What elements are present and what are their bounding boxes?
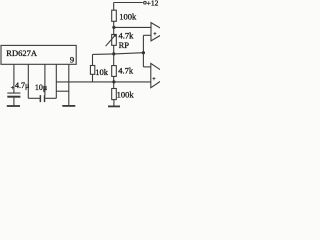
ground under C1 xyxy=(7,105,20,107)
svg-text:9: 9 xyxy=(70,55,74,65)
capacitor C2 10u right plate xyxy=(44,95,46,102)
resistor R4 100k bottom xyxy=(112,89,117,100)
capacitor C1 4.7u plate top xyxy=(7,93,20,94)
op-amp U2 top triangle xyxy=(151,23,167,41)
capacitor C2 10u left plate xyxy=(40,95,42,102)
IC U1 RD627A box xyxy=(1,45,76,64)
svg-text:RD627A: RD627A xyxy=(6,48,38,58)
svg-text:+12: +12 xyxy=(147,0,159,7)
node dot at junction xyxy=(142,51,145,54)
wire R3 to R4 xyxy=(113,76,115,88)
potentiometer RP 4.7k box xyxy=(112,35,117,46)
wire to opamp1 top input xyxy=(114,26,151,28)
wire pin1 down from IC xyxy=(13,64,15,92)
svg-text:10k: 10k xyxy=(95,67,109,77)
wire 10u right lead xyxy=(45,97,56,99)
svg-text:+: + xyxy=(152,77,156,83)
wire jog to ground stem xyxy=(56,90,69,92)
svg-text:100k: 100k xyxy=(117,89,135,99)
node dot below R2 xyxy=(112,26,115,29)
node dot mid column xyxy=(112,52,115,55)
wire to opamp2 top input xyxy=(143,66,150,68)
wire node to opamp junction xyxy=(114,53,144,54)
capacitor C1 4.7u plate bottom xyxy=(7,96,20,98)
resistor R2 100k top xyxy=(112,10,117,21)
svg-text:10μ: 10μ xyxy=(35,83,47,92)
wire pin5 ground stem xyxy=(68,64,70,105)
wire ground rail xyxy=(56,81,151,83)
wire RP to node xyxy=(113,45,115,65)
wire C1 to ground xyxy=(13,98,15,106)
wire 10k top to column xyxy=(93,53,114,56)
wire pin3 down from IC xyxy=(44,64,46,95)
wire top rail to R2 xyxy=(113,3,115,11)
svg-text:100k: 100k xyxy=(119,12,137,22)
wire pin4 down from IC xyxy=(55,64,57,98)
wire pin2 down from IC xyxy=(27,64,29,98)
potentiometer RP arrow xyxy=(106,36,115,47)
power rail top xyxy=(114,2,143,4)
resistor R1 10k vertical xyxy=(92,54,94,65)
ground under pin5 xyxy=(62,105,75,107)
wire R4 to ground xyxy=(113,100,115,106)
wire opamp1 plus input xyxy=(143,34,151,36)
op-amp U3 bottom triangle xyxy=(151,63,169,87)
wire junction vertical xyxy=(142,35,144,67)
svg-text:4.7k: 4.7k xyxy=(119,31,135,41)
node dot on ground rail xyxy=(112,80,115,83)
ground under R4 xyxy=(108,106,120,108)
wire 10u left lead xyxy=(28,97,39,99)
wire R2 to RP xyxy=(113,21,115,34)
svg-text:4.7k: 4.7k xyxy=(118,65,134,75)
resistor R3 4.7k vertical xyxy=(112,66,117,77)
svg-text:4.7μ: 4.7μ xyxy=(15,81,29,90)
svg-text:RP: RP xyxy=(119,40,130,50)
power terminal circle xyxy=(144,1,147,4)
